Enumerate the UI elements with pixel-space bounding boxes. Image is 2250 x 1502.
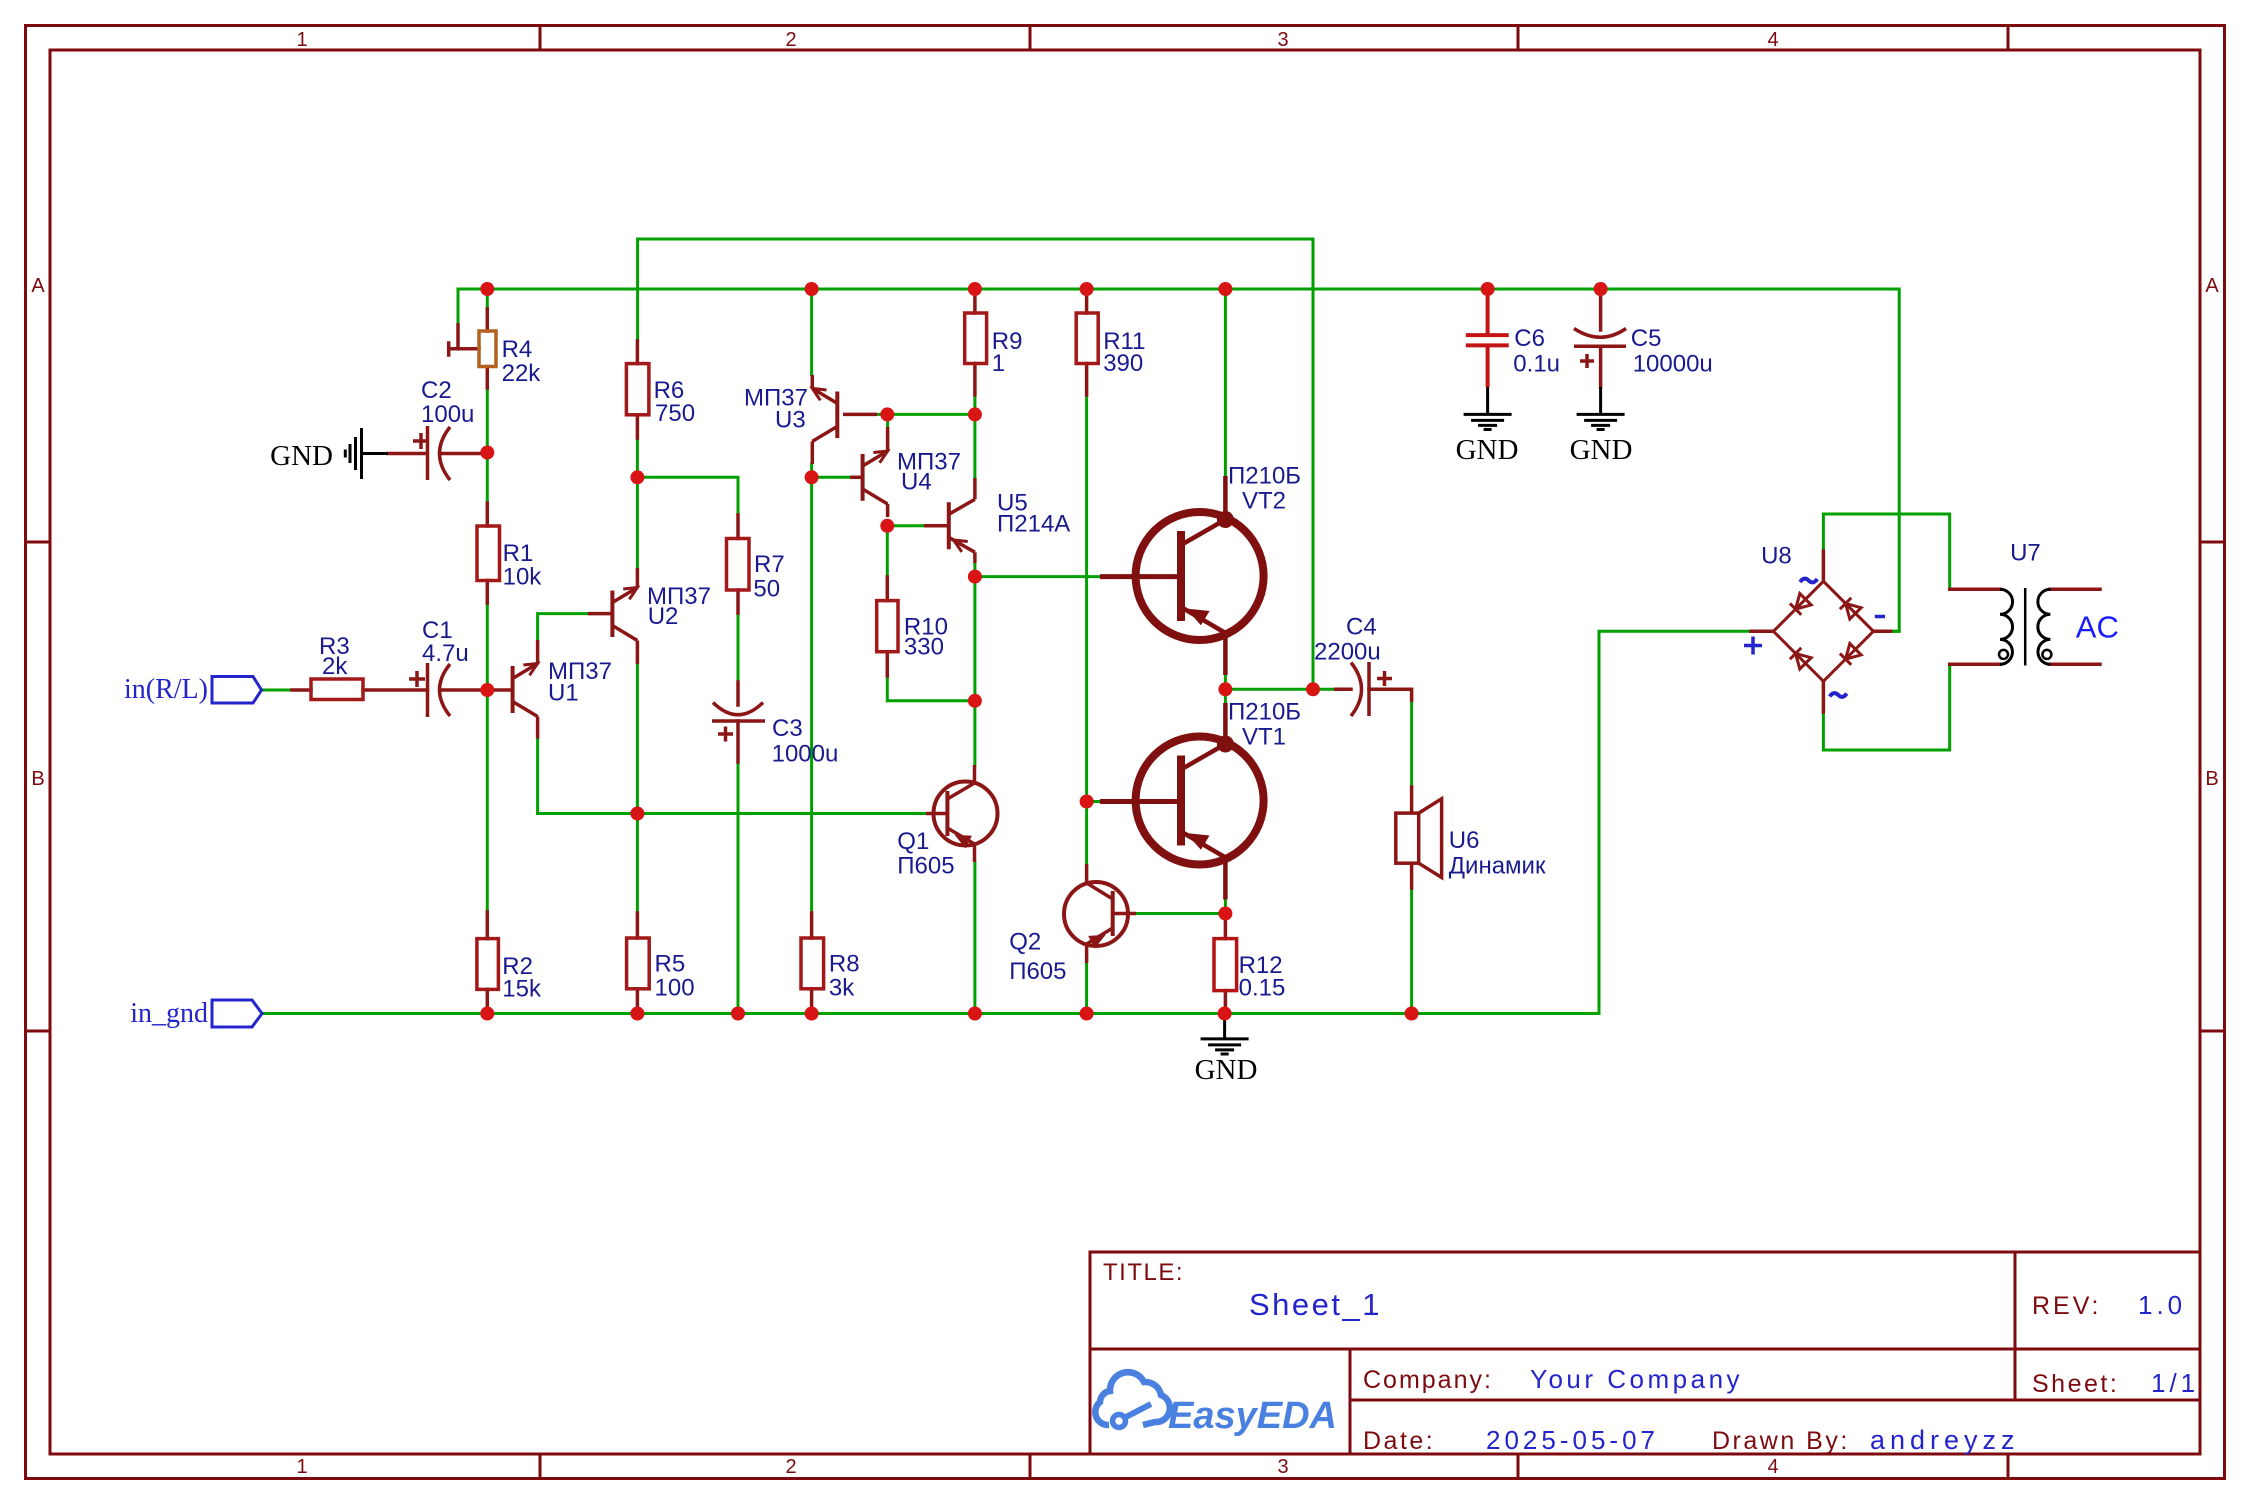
svg-text:22k: 22k (502, 360, 542, 387)
wire U3 collector to R8 node (810, 464, 813, 477)
svg-text:GND: GND (270, 440, 333, 472)
node R9-U5c (968, 407, 982, 421)
svg-text:C6: C6 (1514, 325, 1545, 352)
svg-text:GND: GND (1456, 434, 1519, 466)
bridge AC tilde marks (1800, 579, 1847, 697)
diode D-bottom-right (1840, 644, 1861, 665)
svg-text:andreyzz: andreyzz (1870, 1425, 2020, 1455)
capacitor C3 plates (712, 703, 765, 722)
svg-text:U2: U2 (648, 603, 679, 630)
node gnd-R8 (805, 1007, 819, 1021)
transistor U5 (924, 478, 975, 563)
ground at R12 (1201, 1014, 1249, 1055)
capacitor C2 plus (413, 433, 429, 449)
resistor R12 body (1214, 939, 1237, 991)
wire U3 emitter to rail (810, 289, 813, 375)
svg-text:Динамик: Динамик (1449, 853, 1546, 880)
svg-text:2025-05-07: 2025-05-07 (1486, 1425, 1659, 1455)
capacitor C2 plates (428, 426, 451, 480)
svg-text:U8: U8 (1761, 542, 1792, 569)
node U4c-R10 (880, 519, 894, 533)
svg-text:GND: GND (1195, 1054, 1258, 1086)
transformer U7 primary stubs (1950, 587, 2000, 591)
resistor R3 pins (292, 688, 311, 692)
svg-text:4.7u: 4.7u (422, 640, 469, 667)
wire Q2 base to VT1 emitter node (1136, 912, 1218, 915)
wire U2 emitter to R5 (636, 664, 639, 913)
svg-text:1: 1 (296, 1456, 307, 1478)
svg-text:1/1: 1/1 (2151, 1368, 2199, 1398)
svg-text:C4: C4 (1346, 614, 1377, 641)
node U2e-U1e (630, 807, 644, 821)
capacitor C1 plus (409, 671, 425, 687)
svg-text:in_gnd: in_gnd (130, 998, 208, 1029)
node U5e-VT2b (968, 570, 982, 584)
svg-text:П214А: П214А (997, 511, 1070, 538)
diode D-top-left (1790, 594, 1811, 615)
svg-text:R4: R4 (502, 336, 533, 363)
wire U5 node to VT2 base (981, 575, 1100, 578)
node C2-R1 (480, 446, 494, 460)
wire R1 to C1 node (486, 603, 489, 690)
capacitor C5 plus (1580, 354, 1594, 368)
bridge U8 pins (1822, 551, 1826, 581)
resistor R7 body (727, 539, 750, 591)
resistor R4 pins and wiper (486, 309, 490, 331)
svg-text:VT2: VT2 (1242, 488, 1286, 515)
speaker U6 pins (1410, 787, 1414, 813)
svg-text:0.15: 0.15 (1239, 975, 1286, 1002)
svg-text:Drawn By:: Drawn By: (1712, 1427, 1850, 1455)
svg-text:EasyEDA: EasyEDA (1168, 1395, 1337, 1437)
node gnd-Q1e (968, 1007, 982, 1021)
wire U5 node down to R10 node (973, 577, 976, 701)
wire U5 base (893, 524, 924, 527)
node gnd-R12 (1218, 1007, 1232, 1021)
svg-text:Company:: Company: (1363, 1366, 1493, 1394)
svg-text:100: 100 (655, 975, 695, 1002)
node rail-U3 (805, 282, 819, 296)
svg-text:П605: П605 (1009, 958, 1066, 985)
transistor VT2 (1100, 476, 1264, 675)
resistor R2 body (477, 939, 499, 990)
svg-text:10000u: 10000u (1633, 350, 1713, 377)
svg-text:A: A (31, 275, 45, 297)
resistor R9 pins (973, 295, 977, 313)
node Q2c-VT1b (1080, 795, 1094, 809)
wire R4 top stub (486, 289, 489, 310)
resistor R5 body (627, 938, 650, 989)
svg-text:3k: 3k (829, 975, 855, 1002)
resistor R1 body (477, 526, 500, 581)
transistor Q1 (926, 765, 998, 862)
svg-text:3: 3 (1277, 1456, 1288, 1478)
wire node to R7 (637, 477, 738, 515)
wire R6 bottom to node (636, 438, 639, 477)
wire U4 emitter up (886, 414, 889, 427)
EasyEDA logo (1095, 1372, 1170, 1427)
wire bootstrap net (638, 239, 1313, 683)
resistor R11 pins (1085, 295, 1089, 313)
node gnd-R2 (480, 1007, 494, 1021)
resistor R8 body (801, 938, 824, 989)
wire Q1 emitter to in_gnd (973, 862, 976, 1014)
node VT1e-Q2b-R12 (1218, 907, 1232, 921)
wire U4 collector node to R10 (886, 526, 889, 577)
wire C1 node to R2 (486, 690, 489, 912)
capacitor C4 plates (1351, 662, 1369, 716)
svg-text:U1: U1 (548, 680, 579, 707)
wire VT1 base node stub (1087, 800, 1100, 803)
wire R9 bottom (973, 395, 976, 414)
wire U1 emitter to Q1 base (538, 812, 926, 815)
resistor R9 body (965, 313, 987, 364)
ground at C2 (345, 428, 388, 479)
svg-text:Sheet:: Sheet: (2032, 1370, 2119, 1398)
resistor R8 pins (810, 913, 814, 938)
node rail-R9 (968, 282, 982, 296)
wire VT2 emitter node (1224, 675, 1227, 683)
wire Q2 collector up (1085, 802, 1088, 865)
resistor R2 pins (486, 912, 490, 939)
wire C3 bottom to in_gnd (737, 762, 740, 1014)
port in_gnd (212, 1000, 262, 1027)
transistor U3 (812, 375, 877, 464)
bridge rectifier U8 (1773, 581, 1873, 681)
capacitor C5 plates (1574, 329, 1626, 347)
wire in(R/L) port stub (262, 689, 293, 692)
potentiometer R4 body (479, 331, 496, 367)
wire U5 emitter node (973, 563, 976, 577)
wire C2 node to R1 (486, 453, 489, 504)
wire U1 collector to U2 base (538, 614, 588, 640)
node rail-VT2 (1218, 282, 1232, 296)
node gnd-U6 (1405, 1007, 1419, 1021)
svg-text:750: 750 (655, 400, 695, 427)
wire VT emitter node to bootstrap node (1225, 688, 1313, 691)
junction dots (480, 282, 1607, 1021)
diode D-bottom-left (1790, 648, 1811, 669)
wire bridge top to transformer (1823, 514, 1949, 589)
transformer U7 (1999, 588, 2051, 666)
svg-text:15k: 15k (502, 975, 542, 1002)
resistor R12 pins (1224, 918, 1228, 939)
node rail-C5 (1594, 282, 1608, 296)
transformer U7 secondary stubs (2050, 587, 2100, 591)
bridge polarity marks (1744, 617, 1885, 655)
svg-text:U6: U6 (1449, 827, 1480, 854)
resistor R3 body (311, 679, 363, 700)
svg-text:4: 4 (1767, 29, 1778, 51)
svg-text:TITLE:: TITLE: (1103, 1259, 1184, 1286)
resistor R11 body (1076, 313, 1098, 364)
svg-text:2: 2 (785, 1456, 796, 1478)
wire U4 base (817, 476, 850, 479)
node R10-Q1c (968, 694, 982, 708)
svg-text:REV:: REV: (2032, 1292, 2101, 1320)
capacitor C3 plus (718, 727, 733, 742)
svg-text:3: 3 (1277, 29, 1288, 51)
svg-text:10k: 10k (503, 564, 543, 591)
wire VT2 collector to rail (1224, 289, 1227, 476)
resistor R10 pins (886, 577, 890, 601)
capacitor C3 pins (736, 682, 740, 705)
wire U1 emitter down (536, 739, 539, 814)
wire node to Q1 collector (973, 701, 976, 765)
wire VT1 collector up (1224, 689, 1227, 703)
capacitor C4 leads (1336, 688, 1351, 692)
title block (1090, 1252, 2200, 1454)
svg-text:330: 330 (904, 634, 944, 661)
svg-text:Date:: Date: (1363, 1427, 1435, 1455)
wire bridge bottom to transformer (1823, 664, 1949, 750)
node gnd-R5 (630, 1007, 644, 1021)
capacitor C4 plus (1377, 671, 1392, 686)
svg-text:GND: GND (1570, 434, 1633, 466)
node R6-R7 (630, 470, 644, 484)
svg-text:C2: C2 (421, 377, 452, 404)
node U3b-U4e (880, 407, 894, 421)
resistor R6 body (626, 364, 649, 415)
svg-text:B: B (31, 768, 44, 790)
svg-text:Q2: Q2 (1009, 928, 1041, 955)
resistor R5 pins (636, 913, 640, 938)
svg-text:П605: П605 (897, 853, 954, 880)
wire U3 base to U4 node (877, 413, 887, 416)
resistor bodies (311, 313, 1237, 991)
svg-text:R8: R8 (829, 951, 860, 978)
capacitor C5 pins (1599, 295, 1603, 330)
ground at C5 (1577, 387, 1625, 430)
transistor U2 (588, 568, 637, 664)
svg-text:U4: U4 (901, 469, 932, 496)
svg-text:VT1: VT1 (1242, 724, 1286, 751)
node bootstrap-C4 (1306, 682, 1320, 696)
svg-text:AC: AC (2076, 610, 2119, 645)
svg-text:П210Б: П210Б (1228, 699, 1301, 726)
svg-text:50: 50 (753, 576, 780, 603)
capacitor C1 plates (428, 663, 451, 717)
wire R9 node to U5 collector (973, 414, 976, 478)
capacitor C2 lead (388, 452, 426, 456)
wire R11 bottom to VT1 base node (1085, 395, 1088, 802)
svg-text:1.0: 1.0 (2138, 1290, 2186, 1320)
resistor R7 pins (736, 515, 740, 539)
node VT2e-VT1c (1218, 682, 1232, 696)
svg-text:U3: U3 (775, 407, 806, 434)
svg-text:A: A (2205, 275, 2219, 297)
wire node to U2 collector (636, 477, 639, 568)
svg-text:C3: C3 (772, 715, 803, 742)
wire R4 bottom to C2 node (486, 388, 489, 453)
wire bootstrap node to C4 (1319, 688, 1336, 691)
svg-text:Your Company: Your Company (1530, 1364, 1743, 1394)
svg-text:C5: C5 (1631, 325, 1662, 352)
resistor R10 body (877, 601, 898, 652)
wire Q2 emitter to in_gnd (1085, 963, 1088, 1014)
wire VT1 emitter down (1224, 900, 1227, 908)
resistor R6 pins (636, 341, 640, 364)
svg-text:4: 4 (1767, 1456, 1778, 1478)
port in(R/L) (212, 677, 262, 704)
capacitor C6 plates (1466, 294, 1509, 387)
svg-text:R7: R7 (754, 551, 785, 578)
transistor U4 (850, 427, 888, 517)
transistor VT1 (1100, 703, 1264, 900)
svg-text:390: 390 (1103, 350, 1143, 377)
node rail-C6 (1481, 282, 1495, 296)
node gnd-Q2e (1080, 1007, 1094, 1021)
wire VCC rail (458, 289, 1899, 631)
svg-text:100u: 100u (421, 401, 474, 428)
diode D-top-right (1840, 598, 1861, 619)
wire U4 node to R9 node (887, 413, 975, 416)
resistor R1 pins (486, 503, 490, 526)
node U3c-R8 (805, 470, 819, 484)
wire R10 bottom to node (887, 676, 975, 701)
wire R7 to C3 (737, 613, 740, 682)
node rail-R11 (1080, 282, 1094, 296)
node gnd-C3 (731, 1007, 745, 1021)
svg-text:1: 1 (296, 29, 307, 51)
speaker U6 (1396, 799, 1442, 878)
node rail-R4 (480, 282, 494, 296)
svg-text:2: 2 (785, 29, 796, 51)
svg-text:1: 1 (992, 350, 1005, 377)
svg-text:1000u: 1000u (772, 741, 839, 768)
svg-text:Q1: Q1 (897, 828, 929, 855)
wire bridge minus stub (1891, 630, 1900, 633)
svg-text:Sheet_1: Sheet_1 (1249, 1287, 1382, 1322)
ground at C6 (1464, 387, 1512, 430)
wire U6 to in_gnd (1410, 888, 1413, 1014)
svg-text:0.1u: 0.1u (1513, 350, 1560, 377)
svg-text:B: B (2205, 768, 2218, 790)
wire in_gnd line (262, 631, 1752, 1013)
svg-text:П210Б: П210Б (1228, 463, 1301, 490)
svg-text:U7: U7 (2010, 540, 2041, 567)
svg-text:2200u: 2200u (1314, 639, 1381, 666)
svg-text:in(R/L): in(R/L) (124, 674, 208, 705)
capacitor C1 lead (440, 688, 483, 692)
svg-text:R5: R5 (655, 951, 686, 978)
wire R8 node down to R8 (810, 477, 813, 913)
node C1-U1 (480, 683, 494, 697)
transistor Q2 (1064, 864, 1136, 963)
wire C4 to U6 speaker (1410, 700, 1413, 787)
transistor U1 (494, 640, 538, 739)
svg-text:2k: 2k (322, 653, 348, 680)
